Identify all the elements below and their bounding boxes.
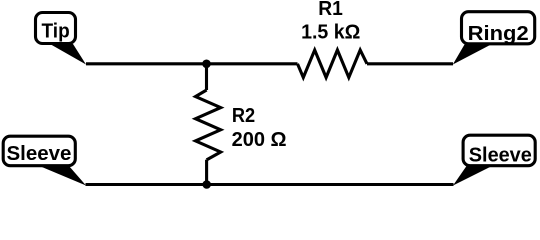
svg-text:Sleeve: Sleeve	[7, 143, 72, 165]
label flag Sleeve (right)	[453, 135, 535, 185]
label flag Sleeve (left)	[3, 136, 86, 185]
node B junction dot (bottom)	[202, 180, 211, 189]
wire top-right segment (R1 to Ring2)	[367, 62, 453, 65]
label flag Ring2	[453, 12, 535, 65]
wire vertical top stub (node A to R2)	[205, 64, 208, 90]
svg-text:R2: R2	[232, 105, 255, 127]
svg-text:R1: R1	[318, 0, 343, 20]
resistor R1	[298, 50, 368, 78]
svg-text:Tip: Tip	[42, 21, 70, 43]
wire bottom segment (Sleeve to Sleeve)	[86, 183, 454, 186]
svg-text:Ring2: Ring2	[468, 23, 529, 45]
label flag Tip	[36, 13, 87, 65]
resistor R2	[196, 90, 221, 160]
svg-text:200 Ω: 200 Ω	[232, 129, 287, 151]
node A junction dot (top)	[202, 60, 211, 69]
wire vertical bottom stub (R2 to node B)	[205, 160, 208, 185]
svg-text:Sleeve: Sleeve	[469, 145, 532, 167]
wire top-left segment (Tip to node A)	[86, 62, 298, 65]
svg-text:1.5 kΩ: 1.5 kΩ	[301, 21, 360, 43]
